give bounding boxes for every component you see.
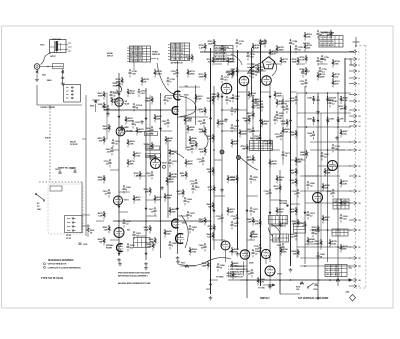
- svg-text:1M: 1M: [327, 35, 330, 37]
- junction: [210, 220, 212, 222]
- resistor R687: [199, 217, 207, 225]
- wire curve fg: [271, 224, 280, 239]
- svg-text:30K: 30K: [227, 75, 231, 77]
- wire vertical x160.5: [160, 93, 162, 258]
- svg-text:INPUT: INPUT: [50, 56, 56, 58]
- resistor R741: [231, 67, 239, 75]
- resistor DELAY: [326, 96, 336, 104]
- svg-text:22K: 22K: [283, 252, 287, 254]
- svg-text:150K: 150K: [277, 96, 282, 98]
- capacitor C700: [247, 52, 256, 60]
- junction: [337, 126, 339, 128]
- junction: [279, 279, 281, 281]
- connector pin 19 y220: [349, 218, 361, 222]
- capacitor C656: [307, 181, 316, 189]
- connector pin 11 y121.5: [349, 120, 361, 124]
- tube V624B: [172, 107, 179, 115]
- wire vx 107: [106, 92, 108, 140]
- svg-text:8.2K: 8.2K: [207, 139, 212, 141]
- capacitor C677: [149, 207, 157, 215]
- capacitor C733: [299, 221, 307, 229]
- svg-text:1.2M: 1.2M: [199, 48, 204, 50]
- tube V664: [313, 193, 323, 203]
- connector pin 14 y150: [349, 148, 361, 152]
- svg-text:7.5K: 7.5K: [192, 252, 197, 254]
- wire vertical x214: [213, 86, 215, 250]
- resistor R733: [279, 221, 288, 229]
- resistor R615: [136, 127, 145, 135]
- dark dot LC: [286, 204, 288, 206]
- boxed label sel2: [146, 146, 160, 150]
- svg-text:2 AC 50 1 2 B 2 1: 2 AC 50 1 2 B 2 1: [130, 51, 143, 54]
- svg-text:9.1K: 9.1K: [279, 212, 284, 214]
- wire stub: [296, 63, 305, 65]
- capacitor C682: [189, 225, 198, 233]
- capacitor C752: [249, 69, 258, 77]
- wire tube drops: [243, 261, 245, 276]
- svg-text:75K: 75K: [198, 99, 202, 101]
- wire stub: [238, 91, 248, 93]
- svg-text:1.6K: 1.6K: [136, 156, 141, 158]
- wire stub: [178, 215, 189, 217]
- capacitor C679: [187, 211, 196, 219]
- capacitor C620: [164, 96, 173, 104]
- junction: [237, 109, 239, 111]
- svg-text:B 1 2 5 20 X 5 2: B 1 2 5 20 X 5 2: [171, 53, 183, 55]
- arrow mark: [269, 212, 271, 214]
- resistor R754: [199, 43, 207, 51]
- svg-text:82K: 82K: [343, 249, 347, 251]
- svg-text:620K: 620K: [212, 97, 217, 99]
- svg-text:390K: 390K: [190, 74, 195, 76]
- svg-text:15K: 15K: [242, 149, 246, 151]
- legend item2: [43, 266, 45, 268]
- tube V674: [117, 244, 124, 252]
- junction extra: [337, 246, 339, 248]
- capacitor C660: [123, 185, 132, 193]
- svg-text:1 2 5 10 2 5 1 2 5: 1 2 5 10 2 5 1 2 5: [326, 266, 339, 268]
- svg-text:SEL WFM: SEL WFM: [146, 134, 154, 136]
- svg-text:C611: C611: [55, 169, 59, 171]
- wire vertical x146: [145, 88, 147, 260]
- resistor R815: [325, 30, 333, 38]
- resistor R665: [199, 127, 207, 135]
- svg-text:2 AC 50 1 2 B 2: 2 AC 50 1 2 B 2: [215, 52, 227, 55]
- capacitor C652: [250, 175, 259, 183]
- wire horizontal y191: [300, 190, 351, 192]
- resistor R729: [241, 144, 249, 152]
- resistor R697: [315, 239, 323, 247]
- tblA tick10: [151, 58, 157, 60]
- arrow mark: [209, 118, 211, 120]
- bottom gnds: [119, 262, 121, 264]
- LC box1: [269, 216, 288, 225]
- junction: [329, 279, 331, 281]
- connector pin 18 y203: [349, 201, 361, 205]
- svg-text:10K: 10K: [130, 144, 134, 146]
- capacitor C737: [190, 179, 198, 187]
- resistor SWP: [340, 129, 348, 137]
- resistor R652: [227, 175, 236, 183]
- svg-text:91K: 91K: [157, 200, 161, 202]
- resistor R632: [190, 141, 198, 149]
- wire stub: [247, 130, 261, 132]
- resistor R616: [125, 116, 134, 124]
- wire vx 297: [296, 93, 298, 258]
- wire y71: [238, 70, 267, 72]
- capacitor C633: [231, 124, 240, 132]
- svg-text:C760: C760: [313, 289, 317, 291]
- wire stub: [146, 215, 157, 217]
- tube V614B: [116, 127, 133, 136]
- resistor R807: [231, 261, 240, 269]
- ground g5: [237, 252, 239, 254]
- connector pin 3 y65: [349, 63, 360, 67]
- resistor R735: [329, 239, 338, 247]
- junction: [327, 149, 329, 151]
- legend item1: [43, 263, 45, 265]
- resistor R617: [133, 151, 142, 159]
- wire curve neon a: [247, 62, 263, 74]
- capacitor C637: [282, 99, 291, 107]
- capacitor C613: [138, 89, 147, 97]
- resistor R804: [261, 119, 270, 127]
- resistor R658: [322, 183, 331, 191]
- wire stub: [82, 214, 90, 216]
- capacitor C671: [282, 151, 291, 159]
- resistor R759: [300, 67, 308, 75]
- wire stub: [214, 63, 222, 65]
- wire curve cf: [179, 96, 197, 117]
- connector pin 21 y247: [349, 245, 361, 249]
- resistor R710: [187, 69, 196, 77]
- resistor R803: [247, 111, 255, 119]
- svg-text:47K: 47K: [181, 175, 185, 178]
- svg-text:10: 10: [157, 58, 159, 60]
- junction: [260, 279, 262, 281]
- wire horizontal y280: [228, 279, 240, 281]
- capacitor C814: [317, 30, 326, 38]
- resistor R691: [231, 247, 240, 255]
- svg-text:R757: R757: [181, 263, 185, 265]
- connector dashed top: [355, 44, 366, 46]
- ground x62.7: [62, 81, 64, 83]
- resistor R692: [147, 242, 155, 250]
- svg-text:910K: 910K: [113, 86, 118, 88]
- cathode circle V633: [163, 165, 166, 168]
- neon B601 pentagon: [262, 57, 274, 69]
- resistor R650: [207, 167, 215, 175]
- resistor R679: [169, 207, 178, 215]
- resistor R740: [134, 171, 142, 179]
- resistor R646: [243, 116, 251, 124]
- svg-text:68K: 68K: [150, 242, 154, 244]
- connector pin 4 y71: [349, 69, 360, 73]
- tube V662: [328, 161, 338, 171]
- wire stub: [270, 63, 280, 65]
- capacitor C646: [274, 116, 283, 124]
- svg-text:30K: 30K: [248, 222, 252, 224]
- boxed label sel3: [146, 154, 161, 158]
- capacitor C610: [110, 91, 119, 99]
- capacitor C741: [252, 63, 261, 71]
- junction extra: [304, 265, 306, 267]
- svg-text:51K: 51K: [310, 242, 314, 244]
- junction: [327, 92, 329, 94]
- capacitor C611A: [133, 103, 143, 111]
- resistor R755: [276, 45, 285, 53]
- wire x86 tick1: [82, 138, 86, 140]
- tblA ticks: [127, 47, 130, 49]
- resistor R678: [98, 211, 106, 219]
- svg-text:3.9K: 3.9K: [279, 104, 284, 106]
- capacitor C670: [250, 207, 259, 215]
- resistor R745: [304, 43, 313, 51]
- wire stub: [261, 91, 271, 93]
- arrow mark: [304, 212, 306, 214]
- wire curve jack: [41, 53, 52, 65]
- svg-text:82K: 82K: [157, 119, 161, 121]
- resistor R809: [227, 271, 235, 279]
- wire vertical x119: [118, 73, 120, 256]
- resistor R669: [282, 127, 291, 135]
- junction: [160, 109, 162, 111]
- resistor R748: [113, 81, 121, 89]
- svg-text:1.8K: 1.8K: [343, 184, 348, 186]
- wire horizontal y110: [222, 109, 247, 111]
- resistor R663: [199, 107, 207, 115]
- resistor R670: [227, 207, 236, 215]
- svg-text:47K: 47K: [99, 140, 103, 143]
- wire stub: [238, 265, 248, 267]
- resistor R747: [339, 104, 347, 112]
- tube V642: [221, 83, 232, 94]
- connector pin 9 y110: [349, 108, 360, 112]
- capacitor C821: [252, 70, 261, 78]
- term box1: [333, 199, 349, 209]
- capacitor C631: [198, 119, 206, 127]
- capacitor C681: [133, 231, 142, 239]
- svg-text:4.7K: 4.7K: [272, 53, 277, 56]
- arrow cluster out: [263, 284, 275, 286]
- capacitor C634: [255, 99, 264, 107]
- capacitor C806: [217, 263, 226, 271]
- svg-text:250K: 250K: [307, 119, 312, 121]
- wire horizontal y150: [310, 149, 351, 151]
- connector pin 23 y266: [349, 264, 361, 268]
- wire stub: [247, 239, 255, 241]
- resistor R728: [231, 175, 239, 183]
- connector pin 15 y166: [349, 164, 361, 168]
- wire stub: [318, 63, 328, 65]
- arrow mark: [145, 118, 147, 120]
- resistor R737: [185, 159, 194, 167]
- wire horizontal y258: [300, 257, 351, 259]
- svg-text:1.2K: 1.2K: [207, 101, 212, 103]
- capacitor C630: [226, 96, 235, 104]
- LC box2: [273, 234, 289, 242]
- svg-text:51K: 51K: [200, 152, 204, 154]
- arrow mark: [317, 120, 319, 122]
- wire stub: [146, 149, 161, 151]
- capacitor C690: [127, 243, 136, 251]
- connector dashed left: [354, 45, 356, 288]
- wire arc v633 grid: [168, 150, 184, 158]
- tube V684: [221, 241, 230, 250]
- resistor 100K: [98, 102, 106, 110]
- wire stub: [291, 159, 306, 161]
- wire vertical x82: [81, 182, 83, 233]
- resistor R696: [280, 247, 289, 255]
- transformer T601 box: [50, 40, 72, 54]
- svg-text:36K: 36K: [285, 132, 289, 134]
- svg-text:8.2K: 8.2K: [281, 124, 286, 126]
- svg-text:51K: 51K: [335, 84, 339, 86]
- svg-text:12K: 12K: [208, 62, 212, 64]
- svg-text:5. SEE PARTS LIST: 5. SEE PARTS LIST: [228, 276, 244, 279]
- svg-text:360K: 360K: [279, 50, 284, 52]
- resistor R730: [269, 159, 278, 167]
- svg-text:VERT ATTENUATOR: VERT ATTENUATOR: [48, 263, 67, 266]
- connector pin 1 y51.5: [349, 50, 360, 54]
- wire vx 321: [320, 113, 322, 250]
- ground g8: [290, 268, 292, 270]
- svg-text:75K: 75K: [335, 64, 339, 66]
- table sw C: [319, 36, 343, 48]
- capacitor C642: [307, 131, 315, 139]
- switch arm: [36, 194, 44, 200]
- svg-text:360K: 360K: [188, 164, 193, 166]
- connector pin 10 y116: [349, 114, 361, 118]
- resistor R680: [144, 225, 152, 233]
- wire curve tblE: [231, 54, 242, 65]
- wire bracket drop1: [49, 105, 51, 108]
- wire stub: [165, 95, 173, 97]
- resistor R662: [144, 187, 152, 195]
- wire vertical x327.5: [327, 93, 329, 262]
- arrow on y280 bus: [349, 279, 352, 282]
- wire vertical x305: [304, 86, 306, 264]
- tube V686: [240, 250, 250, 260]
- svg-text:68K: 68K: [327, 173, 331, 175]
- ground g1: [118, 258, 120, 260]
- resistor R714: [317, 72, 326, 80]
- resistor R707: [340, 179, 349, 187]
- capacitor C743: [236, 39, 245, 47]
- capacitor C678: [123, 219, 132, 227]
- connector dashed bottom: [355, 287, 366, 289]
- wire vx 150: [149, 95, 151, 160]
- connector pin 12 y126: [349, 124, 361, 128]
- resistor R690: [98, 237, 106, 245]
- resistor R703: [340, 244, 349, 252]
- ground jack: [36, 78, 38, 80]
- capacitor C728: [264, 189, 272, 197]
- capacitor C664: [184, 197, 193, 205]
- junction pent: [250, 67, 252, 69]
- svg-text:160K: 160K: [315, 244, 320, 246]
- resistor R629: [169, 149, 178, 157]
- bottom small cluster: [180, 263, 196, 268]
- wire horizontal y166: [318, 165, 351, 167]
- wire horizontal y230: [310, 229, 351, 231]
- resistor R686: [250, 232, 259, 240]
- arrow mark: [269, 96, 271, 98]
- svg-text:43K: 43K: [291, 172, 295, 175]
- resistor R695: [292, 219, 300, 227]
- resistor R681: [103, 225, 111, 233]
- resistor R674: [290, 207, 298, 215]
- capacitor C762: [259, 39, 267, 47]
- capacitor C754: [221, 45, 230, 53]
- wire horizontal y93: [297, 92, 351, 94]
- capacitor C674: [307, 211, 316, 219]
- LC box3: [294, 223, 306, 233]
- tube V693: [261, 249, 270, 258]
- arrow mark: [118, 206, 120, 208]
- junction: [221, 130, 223, 132]
- svg-text:X0 .5 20 5 X2 1: X0 .5 20 5 X2 1: [171, 47, 182, 49]
- arrow mark: [236, 120, 238, 122]
- resistor R636: [274, 91, 283, 99]
- wire stub: [305, 175, 318, 177]
- wire horizontal y280: [240, 279, 352, 281]
- wire vertical x280: [279, 170, 281, 294]
- wire vertical x237.5: [237, 50, 239, 250]
- resistor R756: [300, 55, 308, 63]
- resistor R601: [36, 69, 38, 70]
- svg-text:B R M: B R M: [45, 138, 50, 140]
- resistor R654: [276, 175, 285, 183]
- capacitor C744: [289, 39, 298, 47]
- svg-text:12K: 12K: [104, 230, 108, 232]
- wire stub: [146, 199, 155, 201]
- wire v684 drop: [225, 250, 227, 262]
- wire vertical x270: [269, 84, 271, 262]
- ground V694: [269, 283, 271, 285]
- svg-text:330K: 330K: [187, 121, 192, 123]
- right small cluster: [90, 100, 100, 112]
- svg-text:27K: 27K: [255, 224, 259, 226]
- svg-text:620K: 620K: [199, 77, 204, 79]
- svg-text:V624: V624: [184, 94, 190, 97]
- wire horizontal y221: [113, 220, 210, 222]
- capacitor C621: [162, 119, 170, 127]
- resistor R667: [231, 139, 240, 147]
- wire stub: [155, 109, 161, 111]
- junction: [210, 109, 212, 111]
- tube V652A: [239, 76, 249, 86]
- junction: [213, 149, 215, 151]
- ground g2: [145, 262, 147, 264]
- connector pin 24 y280: [349, 278, 361, 282]
- resistor R732: [254, 219, 262, 227]
- resistor 1/4W: [121, 125, 130, 133]
- svg-text:91K: 91K: [234, 144, 238, 146]
- wire horizontal y127: [297, 126, 351, 128]
- capacitor C736: [216, 214, 224, 222]
- svg-text:88K: 88K: [298, 162, 302, 164]
- svg-text:18K: 18K: [244, 121, 248, 123]
- wire horizontal y203: [305, 202, 351, 204]
- wire horizontal y113: [297, 112, 351, 114]
- svg-text:8.2K: 8.2K: [207, 237, 212, 239]
- wire stub: [247, 63, 255, 65]
- capacitor C695: [312, 229, 321, 237]
- wire stub: [270, 199, 281, 201]
- capacitor C667: [247, 127, 255, 135]
- table sel E: [214, 46, 233, 62]
